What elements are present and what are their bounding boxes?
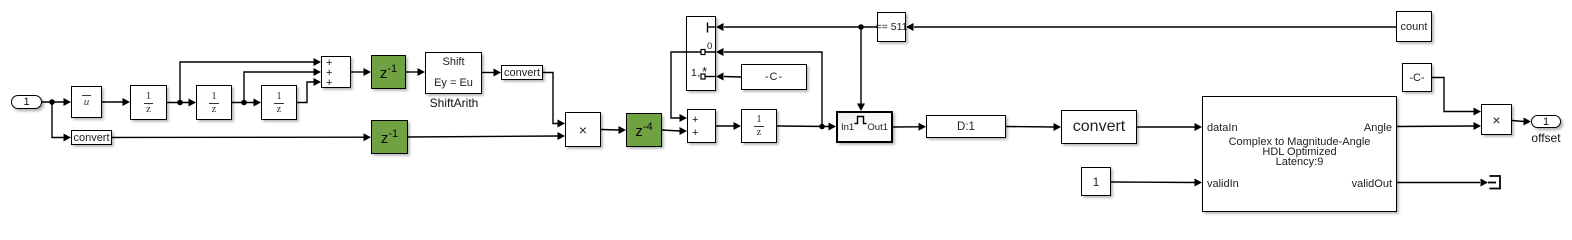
wire tap1 to sum A1 in1 (180, 62, 314, 103)
wire feedback to switch port 0 (724, 52, 822, 127)
wire count to == 511 (914, 26, 1396, 28)
delay Z-4 (green) (626, 113, 662, 147)
product block x2 (1481, 104, 1512, 135)
constant -C- (offset) (1402, 63, 1432, 92)
sum block A1 (3 inputs) (321, 56, 351, 88)
wire constant 1 to validIn (1111, 181, 1195, 184)
delay Z-1 upper (green) (371, 55, 406, 89)
wire Z-4 to sum A2 (662, 130, 680, 131)
switch port1 marker (701, 74, 705, 79)
unit delay 1/z #4 (741, 109, 777, 143)
wire -C- offset to product x2 (1432, 78, 1474, 112)
triggered subsystem In1/Out1 (836, 111, 893, 143)
wire Z-1 upper to Shift (406, 71, 418, 73)
wire convert big to dataIn (1137, 126, 1195, 128)
sum block A2 (2 inputs) (687, 109, 716, 143)
wire convert lower to Z-1 lower (112, 136, 364, 138)
convert block lower-left (71, 130, 112, 145)
delay D:1 (926, 115, 1006, 138)
switch label 0 (707, 41, 712, 52)
wire == 511 to switch control (724, 26, 877, 28)
wire D:1 to convert big (1006, 126, 1054, 129)
unit delay 1/z #2 (196, 85, 232, 120)
gain block u-conjugate (71, 86, 102, 118)
product block x1 (565, 112, 601, 147)
wire 1/z1 to 1/z2 (167, 102, 189, 104)
unit delay 1/z #1 (130, 85, 167, 120)
wire trigger down to subsystem (860, 27, 862, 104)
wire convert upper to product x1 (543, 73, 558, 124)
switch label 1,* (691, 64, 708, 79)
wire Shift to convert upper (482, 72, 494, 74)
wire tap2 to sum A1 in2 (244, 72, 314, 103)
count source block (1396, 11, 1432, 42)
delay Z-1 lower (green) (371, 120, 408, 154)
wire Z-1 lower to product x1 (408, 136, 558, 137)
convert block big (1061, 110, 1137, 144)
trigger pulse symbol (855, 117, 867, 124)
convert block upper (501, 65, 543, 80)
wire sum A2 to 1/z #4 (716, 125, 734, 127)
label ShiftArith (420, 96, 488, 110)
wire 1/z4 to In1 subsystem (777, 125, 829, 128)
unit delay 1/z #3 (261, 85, 297, 120)
wire u-conj to 1/z #1 (102, 101, 123, 103)
wire product x2 to outport (1512, 121, 1524, 122)
wire input down to convert (52, 102, 64, 138)
label offset (1516, 131, 1572, 145)
switch control stub (708, 26, 716, 28)
wire switch output to sum A2 (671, 52, 686, 118)
switch control tick (707, 23, 709, 33)
terminator symbol (1490, 176, 1501, 189)
junction after 1/z #2 (241, 100, 247, 106)
multiport switch (686, 16, 716, 91)
switch port1 stub (705, 76, 715, 78)
input port 1 (11, 95, 42, 109)
wire -C- to switch port 1 (724, 76, 741, 79)
wire Out1 to D:1 (893, 126, 919, 128)
Shift block (ShiftArith) (425, 52, 482, 94)
compare == 511 (877, 12, 906, 42)
junction feedback (819, 124, 825, 130)
constant 1 (1081, 167, 1111, 196)
wire validOut to terminator (1397, 182, 1480, 184)
wire inport to u-conj (42, 101, 64, 103)
constant -C- (switch input) (741, 64, 807, 90)
wire sum A1 to Z-1 upper (351, 71, 364, 73)
wire 1/z2 to 1/z3 (232, 102, 254, 104)
switch port0 marker (701, 50, 705, 55)
switch port0 selection line (687, 51, 715, 53)
wire product x1 to Z-4 (601, 129, 619, 132)
output port 1 offset (1531, 115, 1561, 128)
junction at input (49, 99, 55, 105)
wire 1/z3 to sum A1 in3 (297, 82, 314, 103)
Complex to Magnitude-Angle HDL Optimized block (1202, 96, 1397, 212)
junction after 1/z #1 (177, 100, 183, 106)
junction trigger (858, 24, 864, 30)
wire Angle to product x2 (1397, 125, 1474, 128)
